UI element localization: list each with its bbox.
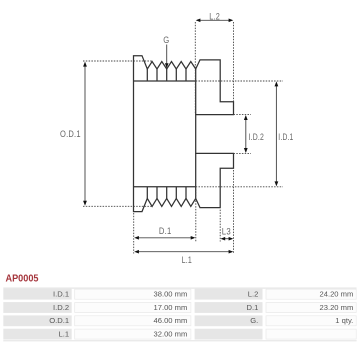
svg-text:I.D.1: I.D.1 <box>53 290 69 299</box>
svg-text:I.D.1: I.D.1 <box>278 132 293 143</box>
svg-text:1 qty.: 1 qty. <box>335 316 353 325</box>
svg-text:46.00 mm: 46.00 mm <box>154 316 188 325</box>
svg-text:L3: L3 <box>222 227 231 238</box>
svg-text:O.D.1: O.D.1 <box>49 316 69 325</box>
svg-text:23.20 mm: 23.20 mm <box>320 303 354 312</box>
svg-text:38.00 mm: 38.00 mm <box>154 290 188 299</box>
svg-text:AP0005: AP0005 <box>6 273 39 285</box>
svg-text:D.1: D.1 <box>159 226 172 237</box>
svg-text:G.: G. <box>250 316 258 325</box>
svg-text:17.00 mm: 17.00 mm <box>154 303 188 312</box>
svg-text:32.00 mm: 32.00 mm <box>154 330 188 339</box>
svg-text:L.1: L.1 <box>59 330 70 339</box>
svg-text:O.D.1: O.D.1 <box>60 129 81 140</box>
svg-text:L.2: L.2 <box>209 12 220 23</box>
svg-text:L.2: L.2 <box>248 290 259 299</box>
svg-text:L.1: L.1 <box>182 255 192 266</box>
svg-text:I.D.2: I.D.2 <box>53 303 69 312</box>
svg-text:I.D.2: I.D.2 <box>249 132 265 143</box>
svg-text:24.20 mm: 24.20 mm <box>320 290 354 299</box>
svg-text:G: G <box>163 35 169 46</box>
svg-text:D.1: D.1 <box>246 303 258 312</box>
